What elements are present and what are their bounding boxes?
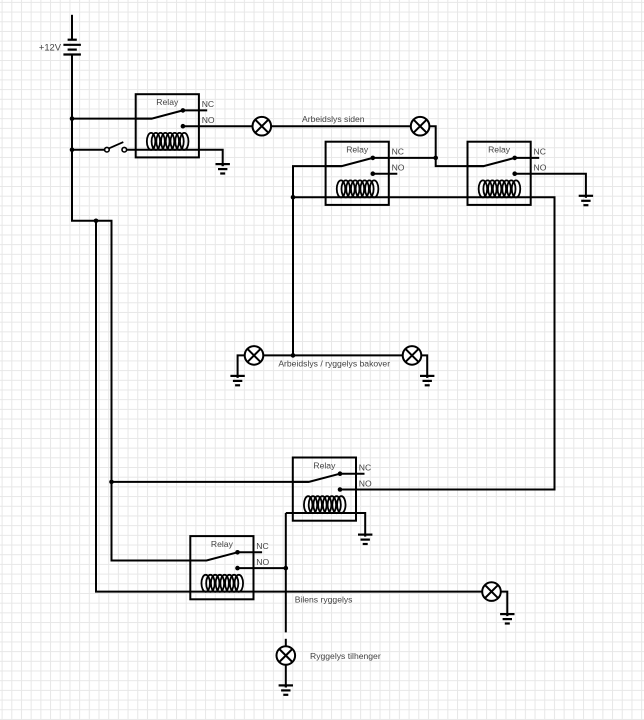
wire lamp L5 lead to ground (501, 592, 508, 615)
wire relay K1 switch feed (72, 118, 152, 120)
ground at relay K4 coil (358, 535, 372, 544)
wire relay K4 NC stub (340, 473, 365, 475)
wire relay K4 coil right lead to ground (286, 513, 365, 535)
lamp L5 (482, 582, 501, 601)
battery +12V top lead wire (71, 15, 73, 40)
junction at bus jog (94, 219, 99, 224)
wire relay K5 NC stub (238, 551, 263, 553)
wire relay K2 and K3 coil line over to right then down to relay K4 NO (293, 197, 555, 489)
wire short segment to lamp L6 (285, 639, 287, 646)
wire relay K3 NC stub (515, 157, 540, 159)
ground at lamp L6 (279, 685, 293, 694)
svg-text:+12V: +12V (39, 42, 62, 53)
wire relay K2 switch feed from lamp bus (293, 166, 342, 355)
svg-text:Arbeidslys siden: Arbeidslys siden (302, 114, 365, 124)
wire relay K4 switch feed (112, 481, 309, 483)
junction on lamp L3-L4 wire (291, 353, 296, 358)
wire relay K3 NO to ground (515, 174, 586, 196)
wire relay K5 NO to node (238, 567, 286, 569)
lamp L1 (252, 117, 271, 136)
wire lamp L6 lead to ground (285, 665, 287, 688)
junction on bus at relay K1 NC feed (70, 116, 75, 121)
ground at lamp L4 (420, 376, 434, 385)
lamp L2 (411, 117, 430, 136)
lamp L3 (245, 346, 264, 365)
wire relay K1 NO to lamp L1 (183, 125, 253, 127)
wire relay K4 coil left lead down through NO node of K5 (285, 513, 287, 632)
junction NC node right of relay K2 (433, 156, 438, 161)
relay K2 (326, 142, 405, 205)
svg-text:Ryggelys tilhenger: Ryggelys tilhenger (310, 651, 381, 661)
wire lamp L1 to lamp L2 (271, 125, 411, 127)
junction relay K5 NO node (284, 566, 289, 571)
wire lamp L3 to lamp L4 (263, 354, 402, 356)
relay K5 (190, 536, 269, 599)
wire lamp L2 down to NC node (429, 126, 435, 158)
relay K3 (468, 142, 547, 205)
wire lamp L3 lead to ground (238, 355, 245, 376)
ground at lamp L5 (500, 614, 514, 623)
wire coil supply bus down to relay K5 coil and lamp L5 (96, 221, 482, 592)
ground at relay K3 NO (579, 196, 593, 205)
lamp L6 (277, 646, 296, 665)
lamp L4 (403, 346, 422, 365)
svg-text:Bilens ryggelys: Bilens ryggelys (295, 594, 353, 604)
ground at relay K1 coil (216, 164, 230, 173)
junction on bus at switch S1 feed (70, 147, 75, 152)
wire switch S1 to relay K1 coil, on to ground (127, 150, 223, 166)
wire lamp L4 lead to ground (421, 355, 427, 376)
ground at lamp L3 (230, 376, 244, 385)
wire relay K2 NO stub (373, 173, 398, 175)
wire main +12V bus down left side with jog to relay feed bus (72, 54, 190, 560)
switch S1 (105, 142, 127, 152)
wire node down to relay K3 switch feed (436, 158, 484, 166)
relay K4 (293, 458, 372, 521)
battery +12V (63, 40, 81, 55)
relay K1 (136, 94, 215, 157)
junction relay K4 feed tap (109, 480, 114, 485)
wire relay K1 NC stub (183, 109, 207, 111)
svg-text:Arbeidslys / ryggelys bakover: Arbeidslys / ryggelys bakover (278, 358, 390, 368)
wire relay K2 NC to node (373, 157, 436, 159)
junction relay K2 coil tap (291, 195, 296, 200)
wire to switch S1 (72, 149, 105, 151)
